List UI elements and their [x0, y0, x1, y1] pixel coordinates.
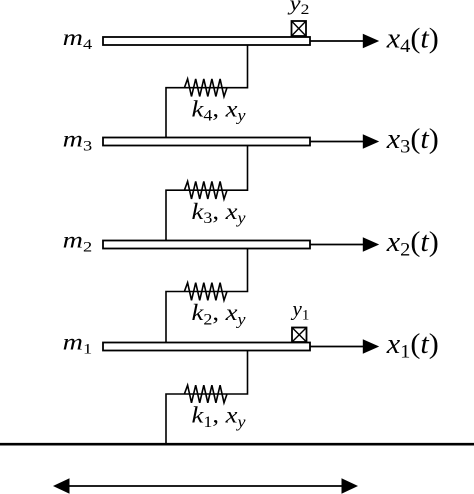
svg-text:k1, xy: k1, xy	[192, 403, 246, 431]
label x3(t)	[386, 124, 439, 158]
label m4	[63, 25, 93, 53]
label y1	[291, 297, 310, 324]
label k3,xy	[192, 199, 246, 227]
label x4(t)	[386, 23, 439, 57]
label k2,xy	[192, 300, 246, 328]
label y2	[287, 0, 309, 18]
spring k4 wire	[166, 45, 248, 138]
svg-text:x4(t): x4(t)	[386, 23, 439, 57]
spring k2 wire	[166, 249, 248, 343]
mass bar m4	[103, 37, 310, 45]
arrow x2(t)	[310, 237, 379, 252]
sensor box y2	[292, 21, 307, 36]
label x1(t)	[386, 329, 439, 363]
svg-text:x1(t): x1(t)	[386, 329, 439, 363]
svg-text:k4, xy: k4, xy	[192, 96, 246, 124]
mass bar m1	[103, 343, 310, 351]
mass bar m2	[103, 241, 310, 249]
label m2	[63, 227, 92, 255]
sensor box y1	[292, 328, 307, 343]
svg-text:k3, xy: k3, xy	[192, 199, 246, 227]
label m3	[63, 127, 92, 155]
arrow x4(t)	[310, 34, 379, 49]
mass bar m3	[103, 138, 310, 146]
arrow x3(t)	[310, 134, 379, 149]
svg-text:x3(t): x3(t)	[386, 124, 439, 158]
svg-text:x2(t): x2(t)	[386, 227, 439, 260]
label x2(t)	[386, 227, 439, 260]
base motion double arrow	[53, 478, 358, 494]
ground line	[0, 443, 474, 446]
arrow x1(t)	[310, 339, 379, 354]
label m1	[63, 329, 92, 357]
svg-text:k2, xy: k2, xy	[192, 300, 246, 328]
label k4,xy	[192, 96, 246, 124]
spring k3 wire	[166, 146, 248, 241]
label k1,xy	[192, 403, 246, 431]
spring k1 wire	[166, 351, 248, 444]
